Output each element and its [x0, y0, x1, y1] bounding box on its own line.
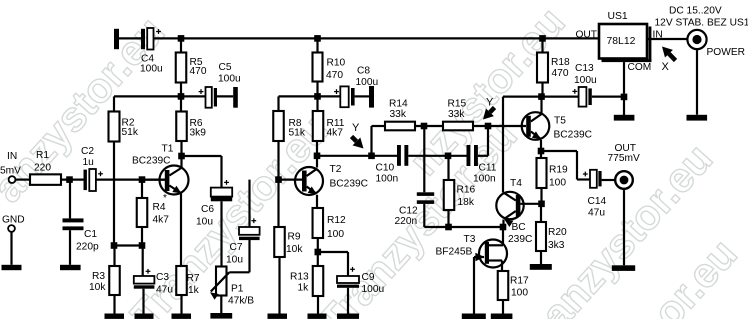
svg-text:C14: C14 [588, 196, 607, 207]
svg-text:R20: R20 [548, 227, 567, 238]
svg-text:R14: R14 [389, 99, 408, 110]
svg-text:R16: R16 [457, 185, 476, 196]
svg-text:T4: T4 [510, 178, 522, 189]
svg-text:470: 470 [190, 66, 207, 77]
svg-text:T1: T1 [162, 144, 174, 155]
svg-text:COM: COM [628, 62, 652, 73]
svg-text:C12: C12 [399, 206, 418, 217]
svg-text:BC239C: BC239C [132, 156, 171, 167]
svg-text:47k/B: 47k/B [228, 296, 254, 307]
svg-text:470: 470 [326, 70, 343, 81]
svg-text:C11: C11 [479, 163, 497, 174]
svg-text:100n: 100n [376, 174, 399, 185]
svg-text:4k7: 4k7 [153, 215, 170, 226]
svg-text:Y: Y [352, 122, 360, 134]
svg-text:R18: R18 [551, 57, 570, 68]
svg-text:12V STAB. BEZ US1: 12V STAB. BEZ US1 [655, 18, 748, 29]
svg-text:T5: T5 [554, 116, 566, 127]
svg-text:47u: 47u [156, 285, 173, 296]
svg-text:C5: C5 [219, 62, 232, 73]
svg-text:OUT: OUT [576, 30, 598, 41]
svg-text:100u: 100u [218, 74, 241, 85]
svg-text:P1: P1 [231, 284, 244, 295]
svg-text:C7: C7 [230, 242, 243, 253]
svg-text:IN: IN [7, 151, 17, 162]
svg-text:78L12: 78L12 [607, 36, 636, 47]
svg-text:100u: 100u [574, 75, 597, 86]
svg-text:100u: 100u [140, 64, 163, 75]
svg-text:R17: R17 [510, 276, 529, 287]
svg-text:220p: 220p [76, 242, 99, 253]
svg-text:R1: R1 [36, 150, 49, 161]
svg-text:GND: GND [2, 215, 25, 226]
svg-text:R12: R12 [327, 215, 346, 226]
svg-text:1u: 1u [83, 157, 94, 168]
svg-text:470: 470 [552, 68, 569, 79]
svg-text:C9: C9 [362, 272, 375, 283]
svg-text:BF245B: BF245B [436, 247, 473, 258]
svg-text:X: X [662, 61, 670, 73]
svg-text:R9: R9 [288, 232, 301, 243]
svg-text:DC 15..20V: DC 15..20V [669, 6, 722, 17]
svg-text:R19: R19 [549, 165, 568, 176]
svg-text:C2: C2 [81, 146, 94, 157]
svg-text:4k7: 4k7 [327, 128, 344, 139]
svg-text:R15: R15 [448, 99, 467, 110]
svg-text:T3: T3 [464, 234, 476, 245]
svg-text:100u: 100u [356, 77, 379, 88]
svg-text:100: 100 [511, 288, 528, 299]
svg-text:US1: US1 [608, 11, 628, 22]
svg-text:10u: 10u [196, 217, 213, 228]
svg-text:10k: 10k [286, 244, 303, 255]
svg-text:33k: 33k [448, 109, 465, 120]
svg-text:C6: C6 [201, 204, 214, 215]
svg-text:3k3: 3k3 [548, 240, 565, 251]
svg-text:100: 100 [549, 178, 566, 189]
svg-text:C8: C8 [357, 66, 370, 77]
svg-text:220: 220 [34, 163, 51, 174]
svg-text:100u: 100u [362, 284, 385, 295]
svg-text:POWER: POWER [707, 47, 746, 58]
svg-text:R7: R7 [187, 273, 200, 284]
svg-text:C3: C3 [156, 272, 169, 283]
svg-text:239C: 239C [508, 234, 532, 245]
svg-text:R10: R10 [327, 58, 346, 69]
svg-text:51k: 51k [122, 127, 139, 138]
svg-text:220n: 220n [395, 216, 418, 227]
svg-text:5mV: 5mV [0, 166, 21, 177]
svg-text:3k9: 3k9 [190, 128, 207, 139]
svg-text:18k: 18k [458, 197, 475, 208]
svg-text:1k: 1k [298, 283, 310, 294]
svg-text:51k: 51k [289, 128, 306, 139]
svg-text:1k: 1k [188, 285, 200, 296]
svg-text:C13: C13 [575, 63, 594, 74]
svg-text:R3: R3 [92, 271, 105, 282]
svg-text:BC239C: BC239C [554, 130, 593, 141]
svg-text:*: * [163, 193, 167, 204]
svg-text:R13: R13 [290, 272, 309, 283]
svg-text:775mV: 775mV [608, 153, 640, 164]
svg-text:BC: BC [512, 222, 526, 233]
svg-text:100: 100 [327, 229, 344, 240]
svg-text:C10: C10 [376, 163, 395, 174]
svg-text:33k: 33k [390, 109, 407, 120]
svg-text:10k: 10k [89, 282, 106, 293]
svg-text:T2: T2 [330, 164, 342, 175]
svg-text:10u: 10u [226, 255, 243, 266]
svg-text:C1: C1 [84, 229, 97, 240]
svg-text:BC239C: BC239C [330, 179, 369, 190]
svg-text:100n: 100n [473, 174, 496, 185]
svg-text:47u: 47u [588, 208, 605, 219]
